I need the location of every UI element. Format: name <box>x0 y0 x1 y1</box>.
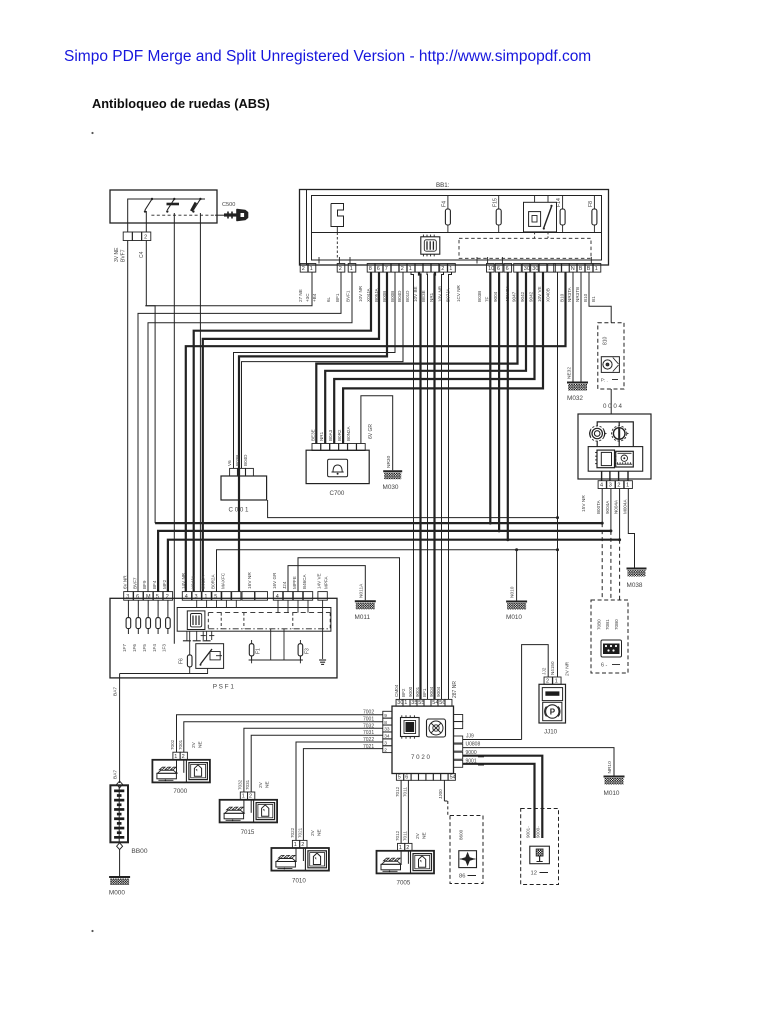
sensor 7015 connector <box>240 792 247 800</box>
svg-text:9004: 9004 <box>436 686 441 697</box>
svg-text:NE: NE <box>265 781 271 788</box>
svg-text:2: 2 <box>144 235 147 241</box>
wheel sensor 7010 box <box>271 848 329 871</box>
svg-text:NR3TB: NR3TB <box>575 287 580 302</box>
svg-text:B03B: B03B <box>477 291 482 302</box>
svg-text:54: 54 <box>450 774 456 780</box>
wheel sensor 7000 box <box>152 760 210 783</box>
svg-text:70B0: 70B0 <box>614 619 619 630</box>
ECU left connector <box>383 711 392 718</box>
sensor 7000 internal divider <box>185 760 187 783</box>
svg-text:M010: M010 <box>604 790 620 797</box>
buzzer C700 box <box>306 450 369 483</box>
svg-text:7005: 7005 <box>397 880 411 887</box>
ECU right connector <box>454 715 463 722</box>
svg-text:MF2: MF2 <box>162 579 167 589</box>
PSF1 inner sub-box <box>177 608 331 632</box>
buzzer bell icon <box>328 459 348 476</box>
svg-text:P: .: P: . <box>601 378 608 384</box>
svg-text:M000: M000 <box>109 890 125 897</box>
svg-text:N4150: N4150 <box>550 661 555 675</box>
PSF1 fuse F6 <box>187 655 192 667</box>
svg-text:5: 5 <box>398 774 401 780</box>
svg-text:B03B: B03B <box>235 455 240 466</box>
band wire 3 thick <box>168 540 620 592</box>
wire battery to ground M000 <box>119 850 121 876</box>
svg-text:BF9: BF9 <box>142 580 147 589</box>
svg-text:1: 1 <box>555 678 558 684</box>
svg-text:BF2: BF2 <box>401 688 406 697</box>
svg-text:2: 2 <box>301 842 304 848</box>
svg-text:NR10: NR10 <box>607 761 613 774</box>
thick wire BB1 507 down to band <box>507 272 509 540</box>
svg-text:9042: 9042 <box>529 291 534 302</box>
svg-text:7: 7 <box>385 266 388 272</box>
svg-text:7000: 7000 <box>173 788 187 795</box>
component 8640 icon <box>459 851 477 868</box>
svg-text:M011: M011 <box>355 614 371 621</box>
wire ignition pin1 to PSF1 cell a <box>127 241 129 592</box>
svg-text:2: 2 <box>617 483 620 489</box>
sensor 7005 icon <box>381 864 401 870</box>
wire cluster pin1 to ground M038 <box>628 489 634 568</box>
svg-text:7011: 7011 <box>403 787 408 797</box>
svg-text:B01JA: B01JA <box>201 575 206 589</box>
cluster gauge right <box>612 426 627 441</box>
svg-text:7032: 7032 <box>363 723 374 729</box>
ECU 7020 box <box>392 706 454 773</box>
ignition internal dashed link <box>151 214 215 216</box>
wire ECU JJ9 net <box>463 739 522 741</box>
svg-text:1: 1 <box>404 700 407 706</box>
svg-text:3: 3 <box>126 594 129 600</box>
svg-text:1: 1 <box>595 266 598 272</box>
PSF1 junction plus marks <box>202 631 204 640</box>
svg-text:B0N2A: B0N2A <box>346 426 351 441</box>
svg-text:30: 30 <box>532 266 538 272</box>
svg-text:14V VE: 14V VE <box>317 573 322 589</box>
svg-text:F4: F4 <box>442 201 448 207</box>
svg-text:7 0 2 0: 7 0 2 0 <box>411 754 430 761</box>
stray dot bottom <box>91 930 93 932</box>
svg-text:10: 10 <box>488 266 494 272</box>
svg-text:JJ00: JJ00 <box>438 789 443 799</box>
svg-text:N011A: N011A <box>358 583 364 598</box>
sensor 7015 internal divider <box>253 800 255 823</box>
PSF1 internal ground <box>322 600 324 659</box>
CAN junction dashed box <box>591 600 628 673</box>
svg-text:8: 8 <box>369 266 372 272</box>
svg-text:M: M <box>146 594 151 600</box>
wire BB1 341 to PSF1 cell b <box>138 272 341 591</box>
svg-text:6: 6 <box>405 774 408 780</box>
svg-text:5: 5 <box>214 594 217 600</box>
svg-text:10V VE: 10V VE <box>537 286 542 302</box>
svg-text:B10: B10 <box>583 293 588 302</box>
svg-text:7021: 7021 <box>297 827 302 838</box>
svg-text:30: 30 <box>524 266 530 272</box>
svg-text:7012: 7012 <box>395 786 400 797</box>
wire 7005 pin2 to 7020 <box>407 781 409 844</box>
wheel sensor 7005 box <box>377 851 435 874</box>
svg-text:9001-: 9001- <box>526 826 531 838</box>
svg-text:7F: 7F <box>484 296 489 302</box>
relay in BB1 <box>524 202 557 232</box>
component 810 dashed box <box>598 323 624 389</box>
wire bundle BB1 to 7020 pin2 <box>411 272 414 699</box>
wire BB1 581 to ground M032 <box>580 272 582 381</box>
svg-text:F1: F1 <box>256 648 262 654</box>
svg-text:14V NR: 14V NR <box>181 572 186 589</box>
control unit BB1 outer box <box>300 190 609 266</box>
svg-text:2: 2 <box>339 266 342 272</box>
svg-text:6V GR: 6V GR <box>368 424 374 439</box>
cluster internal top wire <box>597 422 633 447</box>
svg-text:27 NE: 27 NE <box>298 289 303 302</box>
wire jog down to band <box>145 306 155 523</box>
svg-text:MAXFC: MAXFC <box>220 572 225 589</box>
svg-text:56: 56 <box>439 700 445 706</box>
BB1 dashed internal box <box>459 238 591 258</box>
svg-text:1: 1 <box>242 794 245 800</box>
wire bundle BB1 to 7020 pin7 <box>449 272 452 699</box>
sensor 7010 connector <box>292 840 299 848</box>
dashed CAN wire 1 <box>601 523 603 600</box>
svg-text:70B0: 70B0 <box>597 619 602 630</box>
svg-text:NR1: NR1 <box>429 292 434 302</box>
svg-text:+B4: +B4 <box>312 293 317 302</box>
svg-text:0 0 0 4: 0 0 0 4 <box>603 403 622 410</box>
svg-text:9000: 9000 <box>466 750 477 756</box>
cluster odometer icon <box>616 451 634 467</box>
wire ignition aux 1 <box>173 223 175 644</box>
PSF1 box <box>110 598 337 678</box>
svg-text:1: 1 <box>294 842 297 848</box>
thick wire BB1 543 to buzzer pin4 <box>343 272 543 443</box>
svg-text:JJ10: JJ10 <box>544 729 558 736</box>
svg-text:M032: M032 <box>567 395 583 402</box>
sensor 7000 target icon <box>189 763 208 780</box>
svg-text:V6: V6 <box>227 460 232 466</box>
PSF1 wide cells <box>242 592 255 601</box>
svg-text:9004: 9004 <box>493 291 498 302</box>
wire 7015 pin1 to 7020 <box>244 728 383 792</box>
svg-text:BA7: BA7 <box>113 770 119 779</box>
svg-text:9000-: 9000- <box>536 826 541 838</box>
sensor 7010 icon <box>276 862 296 868</box>
wire PSF1 to 7020 pin1 <box>298 558 400 700</box>
JJ10 box <box>539 684 566 723</box>
wire BB1 557 down to JJ10 <box>557 272 559 677</box>
wire cluster pin4 down <box>601 489 603 524</box>
svg-text:6: 6 <box>377 266 380 272</box>
svg-text:7022: 7022 <box>363 737 374 743</box>
wire BB1 589 to headlamp box <box>589 272 611 323</box>
thick wire BB1 387 to PSF1 <box>239 272 387 591</box>
svg-text:B0R2A: B0R2A <box>211 574 216 589</box>
svg-text:B1: B1 <box>591 296 596 302</box>
key symbol <box>224 213 237 216</box>
wire bundle BB1 to 7020 pin4 <box>426 272 429 699</box>
svg-text:B04D: B04D <box>243 454 248 466</box>
svg-text:1: 1 <box>310 266 313 272</box>
sensor 7005 target icon <box>413 854 432 871</box>
battery BB00 <box>117 781 123 788</box>
wire BB1 573 to ground M032 <box>572 272 574 381</box>
svg-text:1CV NR: 1CV NR <box>456 284 461 302</box>
svg-text:8600: 8600 <box>459 829 464 840</box>
PSF1 mini fuses <box>127 600 129 617</box>
svg-text:B00B: B00B <box>390 291 395 302</box>
svg-text:B01D: B01D <box>405 290 410 302</box>
PSF1 dashed internal <box>208 612 330 614</box>
svg-text:BVF7: BVF7 <box>121 249 127 262</box>
svg-text:M038: M038 <box>627 582 643 589</box>
svg-text:BB1:: BB1: <box>436 182 450 189</box>
svg-text:2V: 2V <box>258 781 264 788</box>
svg-text:B04D: B04D <box>397 290 402 302</box>
band ground wire <box>217 550 558 592</box>
svg-text:2V: 2V <box>191 741 197 748</box>
svg-text:N004A: N004A <box>614 499 619 514</box>
svg-text:2V: 2V <box>310 829 316 836</box>
thick wire BB1 490 down to band <box>489 272 491 523</box>
svg-text:B: B <box>587 266 591 272</box>
svg-text:10V NR: 10V NR <box>358 285 363 302</box>
wire cluster pin3 down <box>610 489 612 531</box>
svg-text:86: 86 <box>459 874 465 880</box>
svg-text:30: 30 <box>397 700 403 706</box>
svg-text:N010: N010 <box>510 586 516 598</box>
svg-text:1F5: 1F5 <box>142 644 147 652</box>
cluster gauge left <box>590 426 605 441</box>
ignition internal drop wires <box>145 211 147 232</box>
svg-text:7002: 7002 <box>170 739 175 750</box>
cluster 0004 box <box>578 414 651 479</box>
svg-text:1: 1 <box>626 483 629 489</box>
svg-text:NE: NE <box>422 832 428 839</box>
thick wire BB1 499 down to band <box>498 272 500 531</box>
component 810 icon <box>601 357 619 373</box>
JJ10 brake lamp icon <box>543 702 562 720</box>
wire bundle BB1 to 7020 pin5 thick <box>433 272 436 699</box>
svg-text:P: P <box>550 708 556 717</box>
svg-text:16V NR: 16V NR <box>247 572 253 589</box>
svg-text:B10: B10 <box>560 293 565 302</box>
PSF1 connector cells <box>124 592 133 601</box>
svg-text:6V NR: 6V NR <box>122 575 127 589</box>
sensor 7015 target icon <box>256 803 275 820</box>
thick wire BB1 534 to buzzer pin3 <box>334 272 534 443</box>
thick wire BB1 565 to PSF1 <box>186 272 566 591</box>
svg-text:2: 2 <box>182 754 185 760</box>
svg-text:6: 6 <box>136 594 139 600</box>
svg-text:BE3E: BE3E <box>310 429 315 441</box>
wire 810 to cluster 0004 <box>610 389 612 414</box>
wire 7010 pin2 to 7020 <box>303 749 382 841</box>
svg-text:F3: F3 <box>304 648 310 654</box>
svg-text:BF1: BF1 <box>422 688 427 697</box>
BB1 lower strip line <box>312 232 602 234</box>
wire 7015 pin2 to 7020 <box>251 735 383 792</box>
ground M010 right <box>604 776 625 778</box>
svg-text:7022: 7022 <box>290 827 295 838</box>
wire PSF1 to ground M011 <box>288 566 365 601</box>
svg-text:NE32: NE32 <box>567 367 573 379</box>
svg-text:MPFA: MPFA <box>324 576 329 589</box>
wire C001 diag link <box>268 500 558 518</box>
component 1220 icon <box>530 846 550 864</box>
BB1 notch shape <box>331 204 344 227</box>
svg-text:1F6: 1F6 <box>132 644 137 652</box>
svg-text:C 0 0 1: C 0 0 1 <box>229 507 250 514</box>
svg-text:7011: 7011 <box>403 831 408 841</box>
thick wire BB1 517 to buzzer pin1 <box>316 272 517 443</box>
svg-text:F15: F15 <box>492 198 498 207</box>
PSF1 relay <box>196 644 224 669</box>
CAN box connector icon <box>601 640 622 657</box>
svg-text:3: 3 <box>195 594 198 600</box>
svg-text:2V: 2V <box>415 832 421 839</box>
svg-text:M010: M010 <box>506 614 522 621</box>
svg-text:X040B: X040B <box>546 288 551 302</box>
wire 7010 pin1 to 7020 <box>296 742 383 840</box>
cluster inner box <box>588 447 643 472</box>
svg-text:7031: 7031 <box>363 730 374 736</box>
svg-text:BE3E: BE3E <box>421 290 426 302</box>
ECU IC icon <box>401 718 420 737</box>
ground M030 <box>383 470 402 472</box>
C001 connector cells <box>230 468 238 476</box>
wire to M010 ground mid <box>516 550 518 601</box>
sensor 7005 internal divider <box>410 851 412 874</box>
svg-text:70B1: 70B1 <box>605 619 610 630</box>
sensor 7010 target icon <box>308 851 327 868</box>
wire 7000 pin1 to 7020 <box>177 715 383 753</box>
svg-text:F14: F14 <box>556 198 562 207</box>
wire ignition pin3 down <box>145 241 147 306</box>
svg-text:1: 1 <box>409 266 412 272</box>
svg-text:C500: C500 <box>222 202 235 208</box>
svg-text:7015: 7015 <box>241 829 255 836</box>
svg-text:7032: 7032 <box>238 779 243 790</box>
svg-text:15V NR: 15V NR <box>581 495 587 512</box>
svg-text:C4: C4 <box>139 251 145 258</box>
wire 7000 pin2 to 7020 <box>184 722 383 753</box>
svg-text:2: 2 <box>166 594 169 600</box>
PSF1 fuse F3 <box>299 640 301 644</box>
svg-text:1: 1 <box>174 754 177 760</box>
svg-text:J24: J24 <box>282 581 287 589</box>
svg-text:35: 35 <box>411 700 417 706</box>
svg-text:9042: 9042 <box>520 291 525 302</box>
svg-text:B0A3: B0A3 <box>328 429 333 441</box>
svg-text:287 NR: 287 NR <box>452 681 458 698</box>
junction dots band <box>489 522 492 525</box>
thick wire BB1 526 to buzzer pin2 <box>325 272 526 443</box>
svg-text:9001: 9001 <box>415 686 420 697</box>
svg-text:6: 6 <box>506 266 509 272</box>
svg-text:6: 6 <box>497 266 500 272</box>
svg-text:N: N <box>571 266 575 272</box>
svg-text:B46CA: B46CA <box>302 574 307 589</box>
sensor 7015 icon <box>224 813 244 819</box>
ignition internal top rail wire <box>128 199 205 232</box>
wire BB1 395 to C001 <box>234 272 396 468</box>
svg-text:BF1: BF1 <box>335 293 340 302</box>
thick wire ECU 9000 to valve <box>463 756 543 838</box>
dashed box 1220 <box>521 809 559 885</box>
PSF1 internal T wires <box>186 631 188 641</box>
cluster connector cells <box>598 481 606 489</box>
svg-text:55: 55 <box>418 700 424 706</box>
ground M038 <box>627 568 647 570</box>
svg-text:7012: 7012 <box>395 830 400 841</box>
svg-text:NR3TA: NR3TA <box>567 286 572 302</box>
svg-text:BF4: BF4 <box>152 580 157 589</box>
svg-text:4: 4 <box>600 483 603 489</box>
svg-text:6 -: 6 - <box>601 663 607 669</box>
wire bundle BB1 to 7020 pin6 <box>442 272 444 699</box>
svg-text:1F7: 1F7 <box>122 644 127 652</box>
wheel sensor 7015 box <box>220 800 278 823</box>
svg-text:BA7: BA7 <box>113 687 119 696</box>
svg-text:Simpo PDF Merge and Split Unre: Simpo PDF Merge and Split Unregistered V… <box>64 48 591 65</box>
svg-text:P S F 1: P S F 1 <box>213 684 235 691</box>
svg-text:B: B <box>579 266 583 272</box>
sensor 7000 icon <box>157 773 177 779</box>
wire bundle BB1 to 7020 pin3 thick <box>419 272 421 699</box>
svg-text:1F3: 1F3 <box>162 644 167 652</box>
svg-text:1: 1 <box>449 266 452 272</box>
svg-text:4: 4 <box>276 594 279 600</box>
svg-text:2: 2 <box>249 794 252 800</box>
BB1 inner box <box>312 196 602 261</box>
svg-text:BVF1: BVF1 <box>346 290 351 302</box>
svg-text:F8: F8 <box>588 201 594 207</box>
stray dot top <box>91 132 93 134</box>
svg-text:2V NR: 2V NR <box>565 661 571 676</box>
PSF1 internal bottom wire <box>249 659 303 661</box>
wire cluster pin2 down <box>619 489 621 540</box>
thick wire ECU 9001 to valve <box>463 764 535 838</box>
svg-text:9001: 9001 <box>466 758 477 764</box>
BB1 internal vertical wire <box>336 227 338 233</box>
dashed CAN wire 3 <box>619 540 621 600</box>
svg-text:2: 2 <box>441 266 444 272</box>
svg-text:810: 810 <box>603 336 609 345</box>
svg-text:5: 5 <box>156 594 159 600</box>
PSF1 IC icon <box>187 611 205 630</box>
svg-text:F6: F6 <box>179 658 185 664</box>
svg-text:2: 2 <box>401 266 404 272</box>
thick wire BB1 371 to PSF1 <box>194 272 371 591</box>
band wire ACC thick <box>155 522 602 524</box>
fuse F8 <box>593 196 595 210</box>
BB1 pin tick marks <box>318 257 320 264</box>
svg-text:M004A: M004A <box>622 499 627 514</box>
wire BB1 352 to PSF1 cell c <box>148 272 352 591</box>
svg-text:9004A: 9004A <box>605 500 610 514</box>
wire ECU U0808 to ground M010 right <box>463 748 614 776</box>
svg-text:7002: 7002 <box>363 710 374 716</box>
ground M032 <box>567 382 588 384</box>
svg-text:B00TA: B00TA <box>596 499 601 514</box>
svg-text:12: 12 <box>531 871 537 877</box>
svg-text:1F4: 1F4 <box>152 644 157 652</box>
svg-text:3: 3 <box>609 483 612 489</box>
sensor 7005 connector <box>398 843 405 851</box>
